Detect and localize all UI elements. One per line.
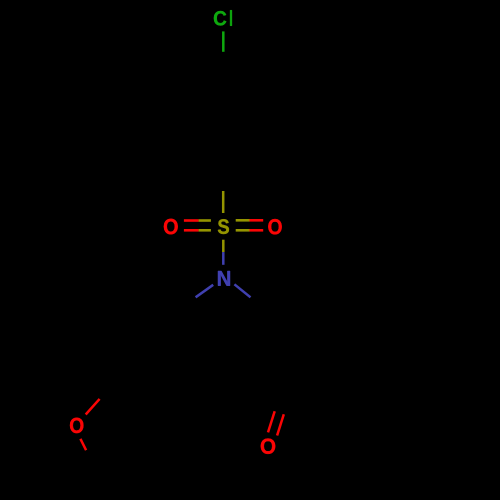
- atom label O (methoxy oxygen): [70, 418, 83, 433]
- bond S=O left upper line, sulfur half: [199, 219, 211, 222]
- atom label O (aldehyde oxygen): [261, 439, 275, 454]
- atom label S (sulfur): [218, 219, 229, 234]
- bond C=O aldehyde line 1, oxygen half (red): [268, 411, 275, 432]
- bond S-N sulfur half (olive): [222, 240, 225, 252]
- atom label O (sulfonyl right oxygen): [268, 219, 281, 234]
- atom label N (indole nitrogen): [218, 271, 230, 286]
- bond N-C7a nitrogen half (blue, down-left): [196, 285, 214, 298]
- bond S=O left lower line, sulfur half: [199, 229, 211, 232]
- wire bond C1-S sulfur half (olive): [222, 191, 225, 213]
- atom label Cl (chlorine): [214, 10, 232, 26]
- bond O-CH3 oxygen half (red, down-right): [80, 439, 86, 450]
- wire bond Cl-C4 chlorine half (green): [222, 31, 225, 51]
- bond N-C2 nitrogen half (blue, down-right): [234, 284, 250, 297]
- atom label O (sulfonyl left oxygen): [164, 219, 178, 235]
- bond S=O right lower line, sulfur half: [236, 229, 250, 232]
- bond S=O left upper line, oxygen half: [184, 219, 199, 222]
- bond S=O right lower line, oxygen half: [250, 229, 264, 232]
- bond S=O left lower line, oxygen half: [184, 229, 199, 232]
- bond S-N nitrogen half (blue): [222, 252, 225, 265]
- bond C=O aldehyde line 2, oxygen half (red): [277, 414, 284, 435]
- bond O-C5 oxygen half (red, up-right): [86, 399, 100, 415]
- bond S=O right upper line, oxygen half: [250, 219, 264, 222]
- bond S=O right upper line, sulfur half: [236, 219, 250, 222]
